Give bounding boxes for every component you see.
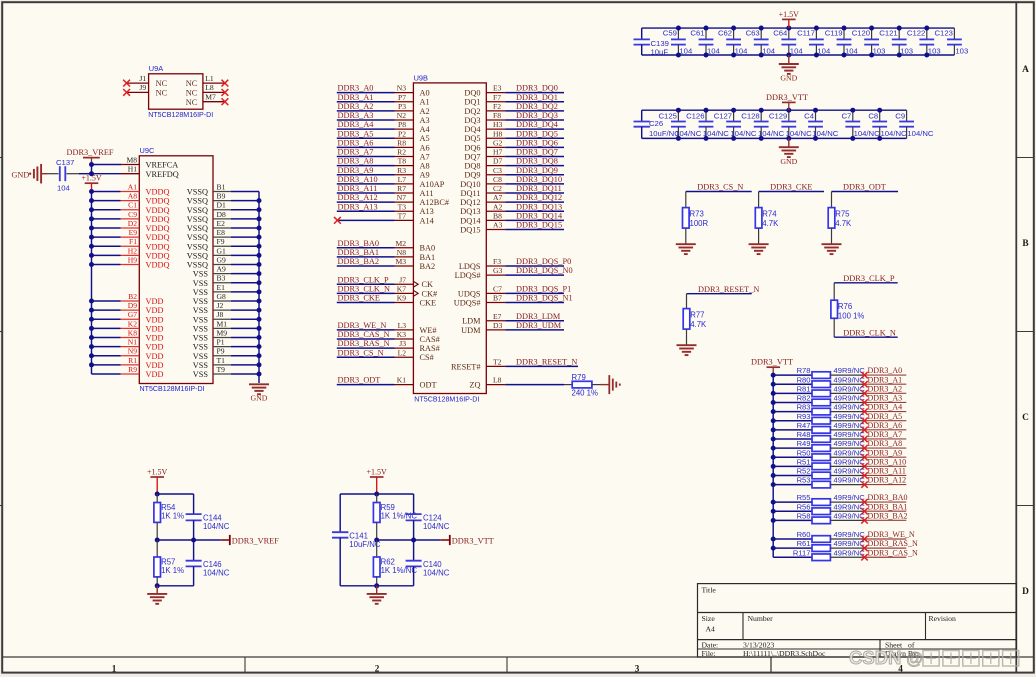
- svg-text:DQ11: DQ11: [461, 189, 481, 198]
- svg-text:+1.5V: +1.5V: [367, 467, 388, 476]
- svg-text:R74: R74: [762, 209, 777, 218]
- svg-text:U9C: U9C: [140, 146, 155, 155]
- node divider bottom: [155, 583, 160, 588]
- svg-text:B8: B8: [493, 211, 502, 220]
- svg-text:D2: D2: [128, 219, 137, 228]
- svg-text:K9: K9: [397, 294, 406, 303]
- svg-text:B: B: [1022, 239, 1028, 249]
- svg-text:C59: C59: [663, 29, 677, 38]
- svg-text:A4: A4: [420, 125, 431, 134]
- resistor R117 49R9/NC net DDR3_CAS_N: [773, 548, 918, 560]
- svg-text:VDD: VDD: [146, 352, 164, 361]
- svg-text:F9: F9: [217, 237, 225, 246]
- svg-text:C9: C9: [895, 111, 905, 120]
- svg-text:VDD: VDD: [146, 343, 164, 352]
- svg-text:DDR3_A11: DDR3_A11: [338, 184, 378, 193]
- svg-text:K8: K8: [128, 328, 137, 337]
- svg-text:VDDQ: VDDQ: [146, 233, 170, 242]
- svg-text:+1.5V: +1.5V: [147, 467, 168, 476]
- wire VTT cap bank bottom bus: [642, 137, 907, 139]
- svg-text:A3: A3: [493, 221, 502, 230]
- svg-text:104/NC: 104/NC: [203, 569, 230, 578]
- pin B2 VDD: [89, 292, 163, 306]
- svg-text:1K 1%/NC: 1K 1%/NC: [381, 566, 418, 575]
- svg-text:C127: C127: [714, 111, 732, 120]
- svg-text:G3: G3: [493, 266, 502, 275]
- pin A3 DQ15 net DDR3_DQ15: [460, 221, 564, 235]
- pin C3 DQ9 net DDR3_DQ9: [464, 166, 564, 180]
- wire +1.5V cap bank top bus: [642, 27, 955, 29]
- svg-text:DDR3_A4: DDR3_A4: [868, 403, 903, 412]
- svg-text:C8: C8: [493, 175, 502, 184]
- svg-text:L8: L8: [205, 83, 214, 92]
- svg-text:VSS: VSS: [193, 270, 209, 279]
- svg-text:2: 2: [375, 663, 380, 673]
- svg-text:D3: D3: [493, 321, 502, 330]
- svg-text:P1: P1: [217, 338, 225, 347]
- svg-text:104: 104: [817, 46, 831, 55]
- svg-text:T2: T2: [493, 357, 502, 366]
- pin A8 VDDQ: [89, 192, 169, 206]
- svg-text:H2: H2: [128, 246, 137, 255]
- svg-text:A8: A8: [128, 192, 137, 201]
- svg-text:C7: C7: [493, 284, 502, 293]
- pin A9 VSS: [193, 265, 262, 279]
- pin R7 A11 net DDR3_A11: [337, 184, 434, 198]
- svg-text:F2: F2: [493, 102, 501, 111]
- svg-text:C8: C8: [868, 111, 878, 120]
- capacitor C61 104: [690, 26, 720, 58]
- power port DDR3_VTT (cap bank): [766, 93, 808, 110]
- wire divider bottom: [340, 585, 413, 587]
- pin A2 DQ13 net DDR3_DQ13: [460, 202, 564, 216]
- svg-text:C117: C117: [797, 29, 815, 38]
- svg-text:VSSQ: VSSQ: [187, 197, 208, 206]
- svg-text:DDR3_RAS_N: DDR3_RAS_N: [868, 539, 918, 548]
- svg-text:DDR3_A8: DDR3_A8: [868, 439, 903, 448]
- net label DDR3_ODT: [832, 183, 899, 192]
- svg-text:F1: F1: [129, 237, 137, 246]
- svg-text:DDR3_A10: DDR3_A10: [868, 457, 907, 466]
- svg-text:49R9/NC: 49R9/NC: [834, 412, 866, 421]
- svg-text:E8: E8: [217, 228, 226, 237]
- svg-text:NC: NC: [156, 79, 168, 88]
- svg-text:F3: F3: [493, 257, 501, 266]
- svg-text:R82: R82: [797, 394, 811, 403]
- svg-text:DDR3_A13: DDR3_A13: [338, 202, 378, 211]
- svg-text:R76: R76: [838, 302, 852, 311]
- svg-text:R55: R55: [797, 493, 811, 502]
- pin P9 VSS: [193, 347, 262, 361]
- svg-text:A: A: [1022, 65, 1029, 75]
- svg-text:E2: E2: [217, 219, 226, 228]
- pin E1 VSS: [193, 283, 262, 297]
- pin E2 VSSQ: [187, 219, 262, 233]
- node VREF/M8: [89, 162, 94, 167]
- svg-text:WE#: WE#: [420, 326, 437, 335]
- svg-text:R47: R47: [797, 421, 811, 430]
- net label DDR3_CS_N: [686, 183, 752, 192]
- svg-text:LDQS#: LDQS#: [455, 271, 481, 280]
- pin R2 A7 net DDR3_A7: [337, 148, 430, 162]
- IC U9A NT5CB128M16IP-DI (NC pins): [148, 64, 213, 119]
- power +1.5V (divider): [367, 467, 388, 494]
- resistor R62 1K 1%/NC: [373, 540, 417, 586]
- resistor R51 49R9/NC net DDR3_A10: [771, 457, 907, 469]
- svg-text:CS#: CS#: [420, 353, 434, 362]
- svg-text:L1: L1: [205, 74, 214, 83]
- svg-text:C1: C1: [128, 201, 137, 210]
- svg-text:N1: N1: [128, 338, 137, 347]
- pin D7 DQ8 net DDR3_DQ8: [464, 157, 564, 171]
- svg-text:A2: A2: [493, 202, 502, 211]
- svg-text:VDD: VDD: [146, 361, 164, 370]
- svg-text:A6: A6: [420, 143, 430, 152]
- svg-text:VSSQ: VSSQ: [187, 224, 208, 233]
- pin A1 VDDQ: [89, 182, 169, 196]
- svg-text:Revision: Revision: [929, 614, 956, 623]
- pin C1 VDDQ: [89, 201, 169, 215]
- svg-text:DDR3_A0: DDR3_A0: [338, 84, 374, 93]
- svg-text:C122: C122: [907, 29, 925, 38]
- pin F2 DQ2 net DDR3_DQ2: [464, 102, 564, 116]
- svg-text:49R9/NC: 49R9/NC: [834, 421, 866, 430]
- svg-text:103: 103: [955, 46, 968, 55]
- svg-text:A7: A7: [493, 193, 502, 202]
- svg-text:49R9/NC: 49R9/NC: [834, 403, 866, 412]
- svg-text:R117: R117: [793, 548, 811, 557]
- svg-text:DDR3_A4: DDR3_A4: [338, 120, 375, 129]
- svg-text:R80: R80: [797, 375, 811, 384]
- svg-text:Size: Size: [702, 614, 716, 623]
- resistor R48 49R9/NC net DDR3_A7: [771, 430, 907, 442]
- power port DDR3_VREF: [66, 148, 113, 164]
- node divider mid: [374, 538, 379, 543]
- svg-text:VSS: VSS: [193, 324, 209, 333]
- svg-text:R73: R73: [690, 209, 704, 218]
- pin N7 A12BC# net DDR3_A12: [337, 193, 449, 207]
- svg-text:P7: P7: [398, 93, 406, 102]
- svg-text:R53: R53: [797, 476, 811, 485]
- svg-text:49R9/NC: 49R9/NC: [834, 457, 866, 466]
- svg-text:104/NC: 104/NC: [907, 129, 934, 138]
- svg-text:DDR3_DQ5: DDR3_DQ5: [516, 129, 558, 138]
- svg-text:VDD: VDD: [146, 315, 164, 324]
- svg-text:C7: C7: [841, 111, 851, 120]
- pin J1 (NC): [123, 74, 167, 88]
- ground (divider): [147, 586, 167, 604]
- svg-text:T7: T7: [398, 211, 407, 220]
- svg-text:DDR3_CKE: DDR3_CKE: [338, 294, 380, 303]
- svg-text:M3: M3: [395, 257, 406, 266]
- resistor R75 4.7K: [828, 192, 852, 244]
- svg-text:DDR3_A12: DDR3_A12: [338, 193, 378, 202]
- svg-text:Title: Title: [702, 585, 717, 594]
- svg-text:49R9/NC: 49R9/NC: [834, 493, 866, 502]
- svg-text:R58: R58: [797, 511, 811, 520]
- svg-text:N9: N9: [128, 347, 137, 356]
- wire C137 to VREF bus: [67, 173, 80, 175]
- svg-text:VSSQ: VSSQ: [187, 233, 208, 242]
- svg-text:VREFCA: VREFCA: [146, 161, 179, 170]
- capacitor C129 104/NC: [769, 108, 812, 141]
- resistor R60 49R9/NC net DDR3_WE_N: [771, 530, 915, 542]
- svg-text:C124: C124: [423, 513, 442, 522]
- svg-text:C120: C120: [852, 29, 870, 38]
- svg-text:R93: R93: [797, 412, 811, 421]
- svg-text:G1: G1: [217, 246, 226, 255]
- pin R9 VDD: [92, 365, 164, 379]
- pin G8 VSS: [193, 292, 262, 306]
- pin H7 DQ7 net DDR3_DQ7: [464, 148, 564, 162]
- svg-text:T3: T3: [398, 202, 407, 211]
- svg-text:DDR3_RESET_N: DDR3_RESET_N: [698, 285, 759, 294]
- svg-text:VDDQ: VDDQ: [146, 197, 170, 206]
- svg-text:49R9/NC: 49R9/NC: [834, 448, 866, 457]
- svg-text:VREFDQ: VREFDQ: [146, 170, 179, 179]
- svg-text:DDR3_DQ3: DDR3_DQ3: [516, 111, 558, 120]
- svg-text:C61: C61: [690, 29, 704, 38]
- ground GND (left of C137): [12, 164, 59, 184]
- svg-text:DQ13: DQ13: [460, 207, 480, 216]
- svg-text:VSSQ: VSSQ: [187, 188, 208, 197]
- ground GND (cap bank 1): [779, 55, 799, 83]
- svg-text:3: 3: [635, 663, 640, 673]
- svg-text:DDR3_A2: DDR3_A2: [338, 102, 374, 111]
- svg-text:D7: D7: [493, 157, 502, 166]
- svg-text:DQ3: DQ3: [464, 116, 480, 125]
- svg-text:DDR3_LDM: DDR3_LDM: [516, 312, 561, 321]
- wire VTT array bus: [772, 375, 774, 557]
- svg-text:VDD: VDD: [146, 324, 164, 333]
- svg-text:DQ7: DQ7: [464, 152, 480, 161]
- capacitor C125 104/NC: [659, 108, 702, 141]
- resistor R53 49R9/NC net DDR3_A12: [771, 476, 907, 488]
- svg-text:P3: P3: [398, 102, 406, 111]
- svg-text:A3: A3: [420, 116, 430, 125]
- capacitor C117 104: [797, 26, 831, 58]
- svg-text:BA0: BA0: [420, 244, 436, 253]
- svg-text:DDR3_BA2: DDR3_BA2: [338, 257, 380, 266]
- svg-text:49R9/NC: 49R9/NC: [834, 511, 866, 520]
- svg-text:103: 103: [873, 46, 886, 55]
- svg-text:B9: B9: [217, 192, 226, 201]
- svg-text:DDR3_CLK_P: DDR3_CLK_P: [843, 274, 895, 283]
- svg-text:DDR3_VTT: DDR3_VTT: [452, 536, 494, 545]
- svg-text:DDR3_A8: DDR3_A8: [338, 157, 374, 166]
- svg-text:DDR3_CAS_N: DDR3_CAS_N: [338, 330, 390, 339]
- svg-text:DQ1: DQ1: [464, 98, 480, 107]
- pin M3 BA2 net DDR3_BA2: [337, 257, 435, 271]
- svg-text:1K 1%: 1K 1%: [161, 511, 184, 520]
- svg-text:A14: A14: [420, 216, 435, 225]
- svg-text:DDR3_WE_N: DDR3_WE_N: [338, 321, 387, 330]
- svg-text:VDDQ: VDDQ: [146, 215, 170, 224]
- svg-text:DQ12: DQ12: [460, 198, 480, 207]
- pin C8 DQ10 net DDR3_DQ10: [460, 175, 564, 189]
- svg-text:B1: B1: [217, 182, 226, 191]
- svg-text:49R9/NC: 49R9/NC: [834, 430, 866, 439]
- capacitor C137 104: [56, 158, 74, 192]
- svg-text:P2: P2: [398, 129, 406, 138]
- svg-text:DQ0: DQ0: [464, 89, 480, 98]
- svg-text:GND: GND: [251, 394, 268, 403]
- svg-text:VSSQ: VSSQ: [187, 242, 208, 251]
- svg-text:DQ10: DQ10: [460, 180, 480, 189]
- svg-text:VSS: VSS: [193, 306, 209, 315]
- svg-text:Number: Number: [748, 614, 774, 623]
- svg-text:49R9/NC: 49R9/NC: [834, 530, 866, 539]
- svg-text:VSS: VSS: [193, 370, 209, 379]
- svg-text:DDR3_BA1: DDR3_BA1: [338, 248, 380, 257]
- capacitor C8 104/NC: [868, 108, 907, 141]
- pin T2 RESET# net DDR3_RESET_N: [451, 357, 578, 371]
- net label DDR3_VTT: [377, 535, 494, 546]
- pin N8 BA1 net DDR3_BA1: [337, 248, 435, 262]
- pin D2 VDDQ: [89, 219, 169, 233]
- svg-text:DDR3_A0: DDR3_A0: [868, 366, 903, 375]
- svg-text:DDR3_A3: DDR3_A3: [868, 394, 903, 403]
- svg-text:1K 1%: 1K 1%: [161, 566, 184, 575]
- capacitor C62 104: [718, 26, 748, 58]
- resistor R59 1K 1%/NC: [373, 494, 417, 540]
- node divider mid: [155, 538, 160, 543]
- wire +1.5V cap bank bottom bus: [642, 54, 955, 56]
- svg-text:N8: N8: [397, 248, 406, 257]
- capacitor C126 104/NC: [686, 108, 729, 141]
- node divider top: [155, 492, 160, 497]
- svg-text:DDR3_DQ11: DDR3_DQ11: [516, 184, 562, 193]
- capacitor C140 104/NC: [406, 540, 450, 586]
- svg-text:M1: M1: [217, 319, 228, 328]
- wire VDD bus vertical: [91, 192, 93, 375]
- svg-text:RAS#: RAS#: [420, 344, 440, 353]
- svg-text:CK#: CK#: [422, 289, 438, 298]
- svg-text:U9A: U9A: [149, 64, 163, 73]
- svg-text:VSSQ: VSSQ: [187, 251, 208, 260]
- svg-text:L3: L3: [398, 321, 407, 330]
- svg-text:104/NC: 104/NC: [854, 129, 881, 138]
- pin F9 VSSQ: [187, 237, 262, 251]
- svg-text:J7: J7: [399, 275, 406, 284]
- svg-text:C62: C62: [718, 29, 732, 38]
- pin L8 (NC): [186, 83, 229, 97]
- svg-text:R81: R81: [797, 384, 811, 393]
- pin P1 VSS: [193, 338, 262, 352]
- svg-text:DDR3_CAS_N: DDR3_CAS_N: [868, 548, 918, 557]
- svg-text:DDR3_DQ14: DDR3_DQ14: [516, 211, 563, 220]
- title block: [698, 584, 1017, 658]
- IC U9B NT5CB128M16IP-DI (main): [413, 73, 486, 403]
- ground (R73): [676, 244, 696, 254]
- svg-text:R75: R75: [835, 209, 850, 218]
- svg-text:VDDQ: VDDQ: [146, 251, 170, 260]
- capacitor C139 10uF: [634, 28, 669, 57]
- svg-text:C128: C128: [741, 111, 759, 120]
- resistor R55 49R9/NC net DDR3_BA0: [771, 493, 908, 505]
- svg-text:R50: R50: [797, 448, 811, 457]
- svg-text:DQ6: DQ6: [464, 143, 480, 152]
- svg-text:R49: R49: [797, 439, 811, 448]
- svg-text:T1: T1: [217, 356, 226, 365]
- svg-text:VSS: VSS: [193, 288, 209, 297]
- svg-text:DDR3_DQS_P0: DDR3_DQS_P0: [516, 257, 571, 266]
- CSDN watermark: [849, 647, 1019, 668]
- svg-text:A4: A4: [706, 625, 716, 634]
- svg-text:A13: A13: [420, 207, 434, 216]
- pin L2 CS# net DDR3_CS_N: [337, 348, 434, 362]
- svg-text:ODT: ODT: [420, 381, 437, 390]
- capacitor C9 104/NC: [895, 110, 934, 138]
- pin L3 WE# net DDR3_WE_N: [337, 321, 437, 335]
- svg-text:49R9/NC: 49R9/NC: [834, 548, 866, 557]
- svg-text:DDR3_A3: DDR3_A3: [338, 111, 374, 120]
- svg-text:DDR3_DQ8: DDR3_DQ8: [516, 157, 558, 166]
- pin K1 ODT net DDR3_ODT: [337, 376, 437, 390]
- svg-text:R78: R78: [797, 366, 811, 375]
- svg-text:DDR3_CLK_N: DDR3_CLK_N: [843, 328, 896, 337]
- pin T7 A14 (no connect): [334, 211, 435, 225]
- resistor R50 49R9/NC net DDR3_A9: [771, 448, 907, 460]
- svg-text:VDD: VDD: [146, 306, 164, 315]
- svg-text:A7: A7: [420, 152, 430, 161]
- svg-text:A5: A5: [420, 134, 430, 143]
- svg-text:K7: K7: [397, 284, 406, 293]
- svg-text:C125: C125: [659, 111, 677, 120]
- svg-text:NC: NC: [186, 89, 198, 98]
- svg-text:DDR3_BA0: DDR3_BA0: [868, 493, 908, 502]
- pin F1 VDDQ: [89, 237, 169, 251]
- pin C7 UDQS net DDR3_DQS_P1: [458, 284, 571, 298]
- svg-text:E7: E7: [493, 312, 502, 321]
- resistor R78 49R9/NC net DDR3_A0: [771, 366, 907, 378]
- resistor R80 49R9/NC net DDR3_A1: [771, 375, 907, 387]
- svg-text:L8: L8: [493, 376, 502, 385]
- capacitor C144 104/NC: [186, 494, 230, 540]
- svg-text:NC: NC: [186, 79, 198, 88]
- svg-text:DDR3_DQS_N1: DDR3_DQS_N1: [516, 294, 573, 303]
- svg-text:VSSQ: VSSQ: [187, 206, 208, 215]
- capacitor C26 10uF/NC: [634, 110, 681, 138]
- svg-text:49R9/NC: 49R9/NC: [834, 439, 866, 448]
- pin F3 LDQS net DDR3_DQS_P0: [459, 257, 572, 271]
- ground GND (U9C VSS): [249, 384, 269, 402]
- svg-text:DDR3_RESET_N: DDR3_RESET_N: [516, 357, 577, 366]
- svg-text:M2: M2: [395, 239, 406, 248]
- svg-text:D9: D9: [128, 301, 137, 310]
- node divider bottom: [374, 583, 379, 588]
- IC U9C NT5CB128M16IP-DI (power pins): [139, 146, 213, 393]
- svg-text:C3: C3: [493, 166, 502, 175]
- svg-text:104: 104: [57, 184, 71, 193]
- pin E9 VDDQ: [89, 228, 169, 242]
- svg-text:VDDQ: VDDQ: [146, 261, 170, 270]
- svg-text:DDR3_A9: DDR3_A9: [338, 166, 374, 175]
- svg-text:F8: F8: [493, 111, 501, 120]
- pin G9 VSSQ: [187, 255, 262, 269]
- svg-text:49R9/NC: 49R9/NC: [834, 467, 866, 476]
- svg-text:C140: C140: [423, 560, 442, 569]
- svg-text:104: 104: [679, 46, 693, 55]
- svg-text:DDR3_A12: DDR3_A12: [868, 476, 907, 485]
- svg-text:DDR3_CLK_N: DDR3_CLK_N: [338, 284, 391, 293]
- svg-text:BA1: BA1: [420, 253, 436, 262]
- ground (R77): [677, 345, 697, 355]
- svg-text:R7: R7: [397, 184, 406, 193]
- svg-text:CSDN: CSDN: [849, 647, 901, 668]
- resistor R81 49R9/NC net DDR3_A2: [771, 384, 907, 396]
- svg-text:DDR3_A1: DDR3_A1: [338, 93, 374, 102]
